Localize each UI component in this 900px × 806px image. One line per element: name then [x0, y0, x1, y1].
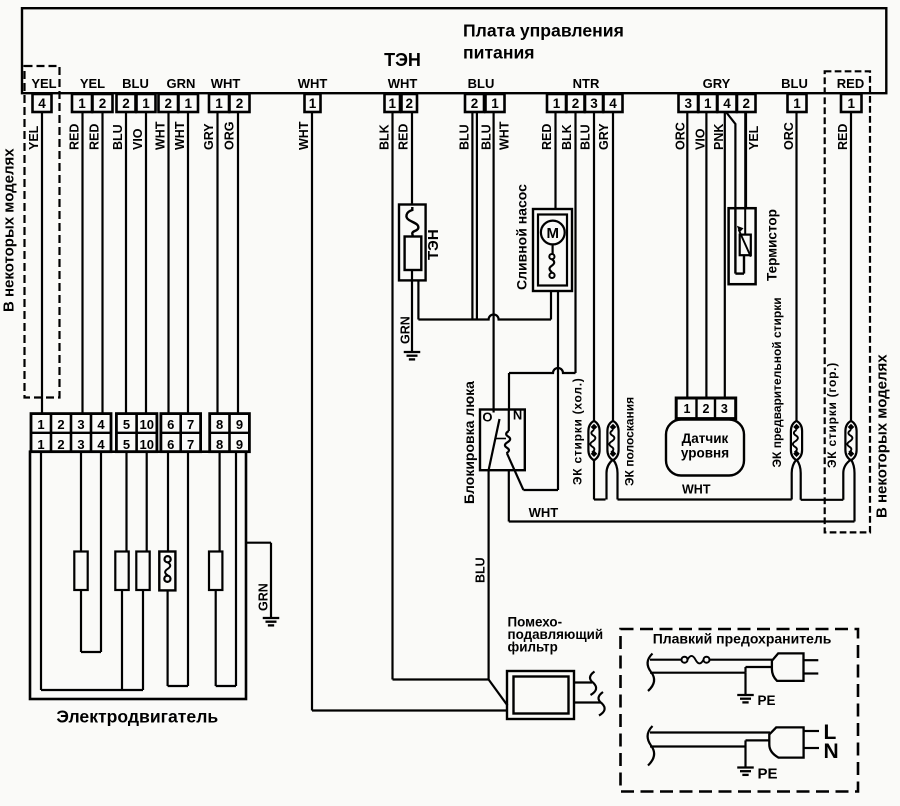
svg-text:2: 2	[703, 402, 710, 416]
svg-text:BLK: BLK	[560, 124, 574, 150]
svg-text:1: 1	[684, 402, 691, 416]
svg-text:1: 1	[793, 96, 801, 111]
svg-text:GRN: GRN	[257, 583, 271, 611]
svg-text:BLU: BLU	[474, 557, 488, 583]
svg-text:BLU: BLU	[781, 76, 808, 91]
svg-text:2: 2	[742, 96, 750, 111]
svg-text:2: 2	[57, 437, 64, 452]
svg-text:1: 1	[491, 96, 499, 111]
svg-text:Плавкий предохранитель: Плавкий предохранитель	[653, 631, 832, 647]
svg-text:Датчик: Датчик	[682, 431, 729, 446]
svg-text:NTR: NTR	[573, 76, 600, 91]
svg-text:7: 7	[187, 417, 194, 432]
svg-text:N: N	[824, 740, 839, 763]
svg-text:WHT: WHT	[682, 482, 711, 496]
svg-text:9: 9	[236, 417, 243, 432]
svg-text:3: 3	[684, 96, 692, 111]
svg-text:GRY: GRY	[202, 123, 216, 150]
svg-text:1: 1	[142, 96, 150, 111]
svg-text:2: 2	[99, 96, 107, 111]
svg-text:ТЭН: ТЭН	[384, 50, 421, 70]
svg-text:M: M	[547, 225, 560, 242]
svg-text:ТЭН: ТЭН	[425, 229, 442, 260]
svg-text:1: 1	[847, 96, 855, 111]
svg-text:GRY: GRY	[703, 76, 731, 91]
svg-text:PE: PE	[758, 766, 778, 783]
svg-text:BLU: BLU	[579, 124, 593, 150]
svg-text:Блокировка люка: Блокировка люка	[461, 381, 477, 504]
svg-text:1: 1	[184, 96, 192, 111]
svg-text:BLU: BLU	[458, 124, 472, 150]
svg-text:2: 2	[122, 96, 130, 111]
svg-text:YEL: YEL	[31, 76, 56, 91]
svg-text:3: 3	[77, 437, 84, 452]
svg-text:GRN: GRN	[399, 316, 413, 344]
svg-text:YEL: YEL	[80, 76, 105, 91]
svg-text:GRY: GRY	[597, 123, 611, 150]
svg-text:BLU: BLU	[468, 76, 495, 91]
svg-text:1: 1	[215, 96, 223, 111]
svg-text:1: 1	[553, 96, 561, 111]
svg-text:ЭК полоскания: ЭК полоскания	[623, 397, 637, 486]
svg-text:Плата управления: Плата управления	[463, 21, 624, 41]
svg-text:WHT: WHT	[173, 121, 187, 150]
svg-text:1: 1	[704, 96, 712, 111]
svg-text:N: N	[513, 408, 522, 423]
svg-text:8: 8	[216, 417, 223, 432]
svg-text:WHT: WHT	[388, 76, 418, 91]
svg-text:WHT: WHT	[297, 121, 311, 150]
svg-text:ORC: ORC	[674, 122, 688, 150]
svg-text:10: 10	[140, 437, 154, 452]
svg-text:5: 5	[123, 417, 130, 432]
svg-text:1: 1	[37, 417, 44, 432]
svg-text:YEL: YEL	[27, 125, 41, 150]
svg-text:4: 4	[38, 96, 46, 111]
svg-text:VIO: VIO	[131, 128, 145, 150]
svg-text:питания: питания	[463, 43, 535, 63]
svg-text:1: 1	[388, 96, 396, 111]
svg-text:BLK: BLK	[378, 124, 392, 150]
svg-text:RED: RED	[68, 124, 82, 150]
svg-text:2: 2	[572, 96, 580, 111]
svg-text:1: 1	[78, 96, 86, 111]
svg-text:2: 2	[405, 96, 413, 111]
svg-text:ORG: ORG	[223, 122, 237, 150]
svg-text:уровня: уровня	[681, 446, 729, 461]
svg-text:В некоторых моделях: В некоторых моделях	[1, 148, 18, 312]
svg-text:2: 2	[236, 96, 244, 111]
svg-text:YEL: YEL	[747, 125, 761, 150]
svg-text:ЭК стирки (гор.): ЭК стирки (гор.)	[825, 362, 839, 468]
svg-text:WHT: WHT	[211, 76, 241, 91]
svg-text:Сливной насос: Сливной насос	[514, 184, 530, 290]
svg-text:PE: PE	[758, 693, 776, 708]
svg-text:2: 2	[471, 96, 479, 111]
svg-text:8: 8	[216, 437, 223, 452]
svg-text:4: 4	[97, 437, 105, 452]
svg-text:BLU: BLU	[111, 124, 125, 150]
svg-text:7: 7	[187, 437, 194, 452]
svg-text:4: 4	[609, 96, 617, 111]
svg-text:1: 1	[309, 96, 317, 111]
svg-text:ORC: ORC	[782, 122, 796, 150]
svg-text:3: 3	[77, 417, 84, 432]
svg-text:ЭК предварительной стирки: ЭК предварительной стирки	[770, 297, 784, 467]
svg-text:3: 3	[590, 96, 598, 111]
svg-text:WHT: WHT	[529, 505, 559, 520]
svg-text:VIO: VIO	[694, 128, 708, 150]
svg-text:9: 9	[236, 437, 243, 452]
svg-text:2: 2	[164, 96, 172, 111]
svg-text:RED: RED	[837, 76, 864, 91]
svg-text:2: 2	[57, 417, 64, 432]
svg-text:RED: RED	[397, 124, 411, 150]
svg-text:WHT: WHT	[154, 121, 168, 150]
svg-text:3: 3	[721, 402, 728, 416]
svg-text:6: 6	[167, 417, 174, 432]
svg-text:5: 5	[123, 437, 130, 452]
svg-text:фильтр: фильтр	[508, 640, 558, 655]
svg-text:GRN: GRN	[167, 76, 196, 91]
svg-text:4: 4	[723, 96, 731, 111]
svg-text:BLU: BLU	[122, 76, 149, 91]
svg-text:RED: RED	[836, 124, 850, 150]
svg-text:ЭК стирки (хол.): ЭК стирки (хол.)	[571, 377, 585, 485]
svg-text:В некоторых моделях: В некоторых моделях	[874, 354, 891, 518]
svg-text:Электродвигатель: Электродвигатель	[56, 707, 218, 727]
svg-text:4: 4	[97, 417, 105, 432]
svg-text:Термистор: Термистор	[765, 209, 780, 281]
svg-text:BLU: BLU	[479, 124, 493, 150]
svg-text:RED: RED	[540, 124, 554, 150]
svg-text:6: 6	[167, 437, 174, 452]
svg-text:PNK: PNK	[712, 124, 726, 150]
svg-text:O: O	[482, 409, 492, 424]
svg-text:10: 10	[140, 417, 154, 432]
svg-text:WHT: WHT	[498, 121, 512, 150]
svg-text:RED: RED	[88, 124, 102, 150]
svg-text:1: 1	[37, 437, 44, 452]
svg-text:WHT: WHT	[298, 76, 328, 91]
